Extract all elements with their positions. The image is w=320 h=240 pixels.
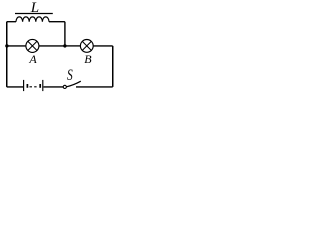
inductor core line	[15, 13, 53, 15]
wire middle: lamp B to right edge	[93, 45, 113, 47]
label A	[29, 52, 36, 67]
wire middle: junction to lamp B	[65, 45, 81, 47]
wire top horizontal right stub	[49, 21, 65, 23]
label L	[31, 0, 39, 17]
battery cell 1 short thick plate	[26, 84, 28, 88]
wire bottom: right edge to switch contact	[76, 86, 113, 88]
battery cell 1 long plate	[23, 80, 25, 91]
inductor L coil	[16, 17, 49, 22]
battery dashed link	[30, 86, 37, 88]
switch S lever	[67, 81, 81, 87]
label B	[84, 52, 91, 67]
wire right edge vertical	[112, 46, 114, 87]
battery cell 2 long plate	[42, 80, 44, 91]
battery cell 2 short thick plate	[39, 84, 41, 88]
switch S pivot circle	[63, 85, 66, 88]
label S	[67, 66, 73, 85]
wire top horizontal left stub	[7, 21, 16, 23]
wire middle: lamp A to junction	[39, 45, 65, 47]
wire left edge vertical	[6, 22, 8, 87]
wire vertical from top wire down to middle junction	[64, 22, 66, 46]
lamp A	[26, 39, 39, 52]
wire bottom: battery to left edge	[7, 86, 23, 88]
node junction dot left	[5, 44, 8, 47]
lamp B	[80, 40, 93, 53]
wire bottom: switch to battery	[44, 86, 64, 88]
wire middle: left node to lamp A	[7, 45, 26, 47]
node junction dot middle	[63, 44, 66, 47]
